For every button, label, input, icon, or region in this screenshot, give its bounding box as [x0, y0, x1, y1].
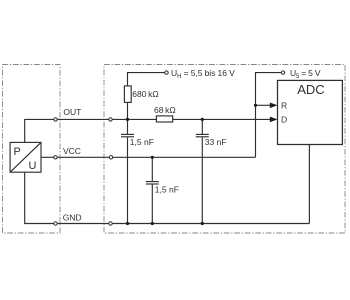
capacitor C1 lower lead (crosses VCC to GND) [127, 137, 129, 223]
svg-text:VCC: VCC [63, 146, 81, 156]
svg-text:68 kΩ: 68 kΩ [154, 105, 176, 115]
wire OUT connector gap [57, 118, 109, 120]
svg-text:U5 = 5 V: U5 = 5 V [290, 68, 321, 80]
wire 680k lower lead [127, 102, 129, 119]
terminal OUT sensor [54, 118, 57, 121]
wire VCC connector gap [57, 156, 109, 158]
ECU enclosure dashed box [104, 65, 345, 234]
capacitor C3 plates [146, 181, 159, 183]
wire supply riser and U5 rail [256, 73, 282, 158]
wire VCC line to supply riser [113, 156, 256, 158]
terminal GND sensor [54, 222, 57, 225]
capacitor C2 plates [196, 133, 209, 135]
junction dot GND/C2 [201, 222, 204, 225]
svg-text:P: P [14, 146, 21, 158]
wire sensor OUT (up from P/U box then right) [25, 119, 54, 142]
wire OUT line to 68k [112, 118, 156, 120]
svg-text:680 kΩ: 680 kΩ [132, 89, 159, 99]
wire R reference branch [256, 104, 271, 106]
capacitor C1 upper lead [127, 119, 129, 134]
svg-text:1,5 nF: 1,5 nF [155, 184, 179, 194]
sensor P/U symbol box [10, 142, 41, 172]
capacitor C3 upper lead [151, 157, 153, 181]
svg-text:1,5 nF: 1,5 nF [130, 137, 154, 147]
wire ADC ground pin riser [308, 145, 310, 224]
capacitor C2 upper lead [201, 119, 203, 134]
svg-text:D: D [281, 114, 287, 124]
capacitor C1 plates [121, 133, 134, 135]
svg-text:33 nF: 33 nF [205, 137, 227, 147]
junction dot OUT/680k/C1 [126, 118, 129, 121]
svg-text:GND: GND [63, 213, 82, 223]
junction dot OUT/C2 [201, 118, 204, 121]
terminal OUT ECU [109, 118, 112, 121]
junction dot VCC/C3 [151, 156, 154, 159]
wire sensor VCC (right from P/U box) [41, 156, 54, 158]
arrowhead into D [270, 117, 278, 123]
terminal UH supply [165, 71, 168, 74]
terminal U5 supply [281, 71, 284, 74]
wire OUT line after 68k to ADC D [173, 118, 271, 120]
wire GND line across ECU [112, 223, 309, 225]
resistor R2 68k body [156, 116, 172, 122]
svg-text:OUT: OUT [63, 107, 81, 117]
arrowhead into R [270, 103, 278, 109]
capacitor C2 lower lead (crosses VCC to GND) [201, 137, 203, 223]
svg-text:R: R [281, 100, 287, 110]
capacitor C3 lower lead [151, 185, 153, 224]
wire GND connector gap [57, 223, 109, 225]
svg-text:ADC: ADC [297, 82, 324, 97]
wire sensor GND (down from P/U box then right) [25, 172, 54, 223]
resistor R1 680k body [124, 86, 131, 103]
junction dot R branch [254, 104, 257, 107]
svg-text:UH = 5,5 bis 16 V: UH = 5,5 bis 16 V [171, 68, 235, 80]
wire 680k upper lead and UH rail [128, 73, 165, 86]
junction dot GND/C3 [151, 222, 154, 225]
svg-text:U: U [29, 160, 37, 172]
terminal GND ECU [109, 222, 112, 225]
junction dot GND/C1 [126, 222, 129, 225]
terminal VCC ECU [109, 156, 112, 159]
terminal VCC sensor [54, 156, 57, 159]
op-amp/converter block ADC [278, 80, 343, 144]
sensor enclosure dashed box [3, 65, 61, 234]
